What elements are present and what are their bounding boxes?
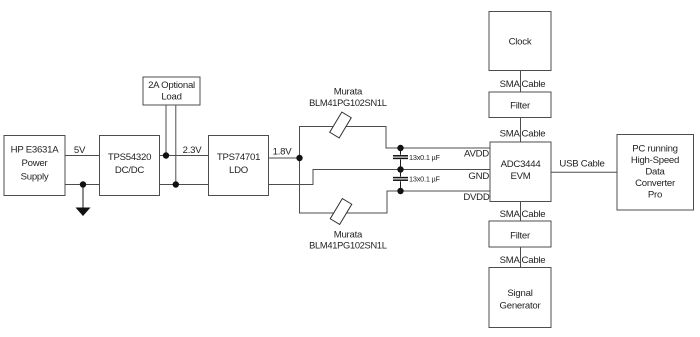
svg-text:13x0.1 µF: 13x0.1 µF xyxy=(409,153,441,162)
wire 2.3V net (DC/DC to LDO) xyxy=(160,155,209,157)
wire USB cable ADC EVM to PC xyxy=(551,171,617,173)
wire 5V net (HP to DC/DC) xyxy=(65,155,100,157)
wire optional load leg B xyxy=(175,105,177,185)
svg-text:5V: 5V xyxy=(74,145,86,156)
svg-text:Supply: Supply xyxy=(21,172,49,183)
svg-text:TPS74701: TPS74701 xyxy=(217,152,260,163)
capacitor C2 13x0.1uF GND-DVDD xyxy=(393,170,408,192)
junction dot GND node at caps xyxy=(397,166,403,172)
svg-text:AVDD: AVDD xyxy=(464,149,489,160)
svg-text:Converter: Converter xyxy=(635,178,676,189)
svg-text:EVM: EVM xyxy=(510,171,530,182)
svg-text:2A Optional: 2A Optional xyxy=(148,80,195,91)
svg-text:SMA Cable: SMA Cable xyxy=(500,255,546,266)
wire GND net (LDO to ADC EVM GND pin) xyxy=(269,170,491,185)
block TPS54320 DC/DC xyxy=(100,136,160,196)
wire AVDD branch through ferrite FB1 xyxy=(300,127,491,159)
ferrite bead FB2 Murata BLM41PG102SN1L (DVDD) xyxy=(330,199,352,225)
svg-text:Murata: Murata xyxy=(334,87,363,98)
block ADC3444 EVM xyxy=(490,142,551,202)
junction dot DVDD node xyxy=(397,188,403,194)
label Murata BLM41PG102SN1L (top) xyxy=(309,87,387,109)
block Clock xyxy=(489,12,551,71)
capacitor C1 13x0.1uF AVDD-GND xyxy=(393,148,408,170)
svg-text:Power: Power xyxy=(22,158,49,169)
svg-text:HP E3631A: HP E3631A xyxy=(11,145,60,156)
wire SMA cable Clock to Filter xyxy=(520,71,522,93)
wire GND net (HP to DC/DC) xyxy=(65,184,100,186)
svg-text:Filter: Filter xyxy=(510,231,531,242)
svg-text:Load: Load xyxy=(161,92,181,103)
junction dot AVDD node xyxy=(397,145,403,151)
block TPS74701 LDO xyxy=(209,136,269,196)
svg-text:ADC3444: ADC3444 xyxy=(501,159,542,170)
wire optional load leg A xyxy=(165,105,167,156)
svg-text:SMA Cable: SMA Cable xyxy=(500,209,546,220)
block Filter (bottom) xyxy=(489,221,551,247)
block HP E3631A Power Supply xyxy=(4,136,65,196)
svg-text:13x0.1 µF: 13x0.1 µF xyxy=(409,175,441,184)
junction dot 1.8V node xyxy=(296,155,302,161)
svg-text:Pro: Pro xyxy=(648,190,662,201)
label Murata BLM41PG102SN1L (bottom) xyxy=(309,230,387,251)
svg-text:Data: Data xyxy=(645,167,665,178)
svg-text:BLM41PG102SN1L: BLM41PG102SN1L xyxy=(309,241,387,251)
wire SMA cable ADC EVM to Filter xyxy=(520,202,522,222)
svg-text:BLM41PG102SN1L: BLM41PG102SN1L xyxy=(309,98,387,108)
svg-text:Filter: Filter xyxy=(510,101,531,112)
svg-text:LDO: LDO xyxy=(229,165,248,176)
wire DVDD branch through ferrite FB2 xyxy=(300,158,491,213)
wire SMA cable Filter to Signal Generator xyxy=(520,247,522,268)
svg-text:DC/DC: DC/DC xyxy=(115,165,144,176)
svg-text:SMA Cable: SMA Cable xyxy=(500,129,546,140)
svg-text:USB Cable: USB Cable xyxy=(559,159,604,170)
svg-text:Generator: Generator xyxy=(500,301,542,312)
svg-text:High-Speed: High-Speed xyxy=(631,155,679,166)
svg-text:PC running: PC running xyxy=(632,144,678,155)
junction dot ground node xyxy=(80,181,86,187)
ground symbol xyxy=(76,208,91,217)
svg-text:Clock: Clock xyxy=(509,37,532,48)
svg-text:1.8V: 1.8V xyxy=(273,147,293,158)
svg-text:DVDD: DVDD xyxy=(463,192,490,203)
svg-text:GND: GND xyxy=(468,171,489,182)
wire ground stub under HP supply xyxy=(82,185,84,209)
block Filter (top) xyxy=(489,92,551,118)
svg-text:TPS54320: TPS54320 xyxy=(108,152,151,163)
block Signal Generator xyxy=(489,268,551,328)
block 2A Optional Load xyxy=(143,77,200,105)
svg-text:Signal: Signal xyxy=(507,288,532,299)
svg-text:SMA Cable: SMA Cable xyxy=(500,79,546,90)
wire GND net (DC/DC to LDO) xyxy=(160,184,209,186)
ferrite bead FB1 Murata BLM41PG102SN1L (AVDD) xyxy=(330,112,352,138)
junction dot GND node at load xyxy=(173,181,179,187)
svg-text:Murata: Murata xyxy=(334,230,363,241)
svg-text:2.3V: 2.3V xyxy=(183,145,203,156)
wire SMA cable Filter to ADC EVM xyxy=(520,118,522,143)
block PC running High-Speed Data Converter Pro xyxy=(617,135,694,211)
junction dot 2.3V node xyxy=(163,152,169,158)
wire 1.8V net (LDO output) xyxy=(269,157,300,159)
